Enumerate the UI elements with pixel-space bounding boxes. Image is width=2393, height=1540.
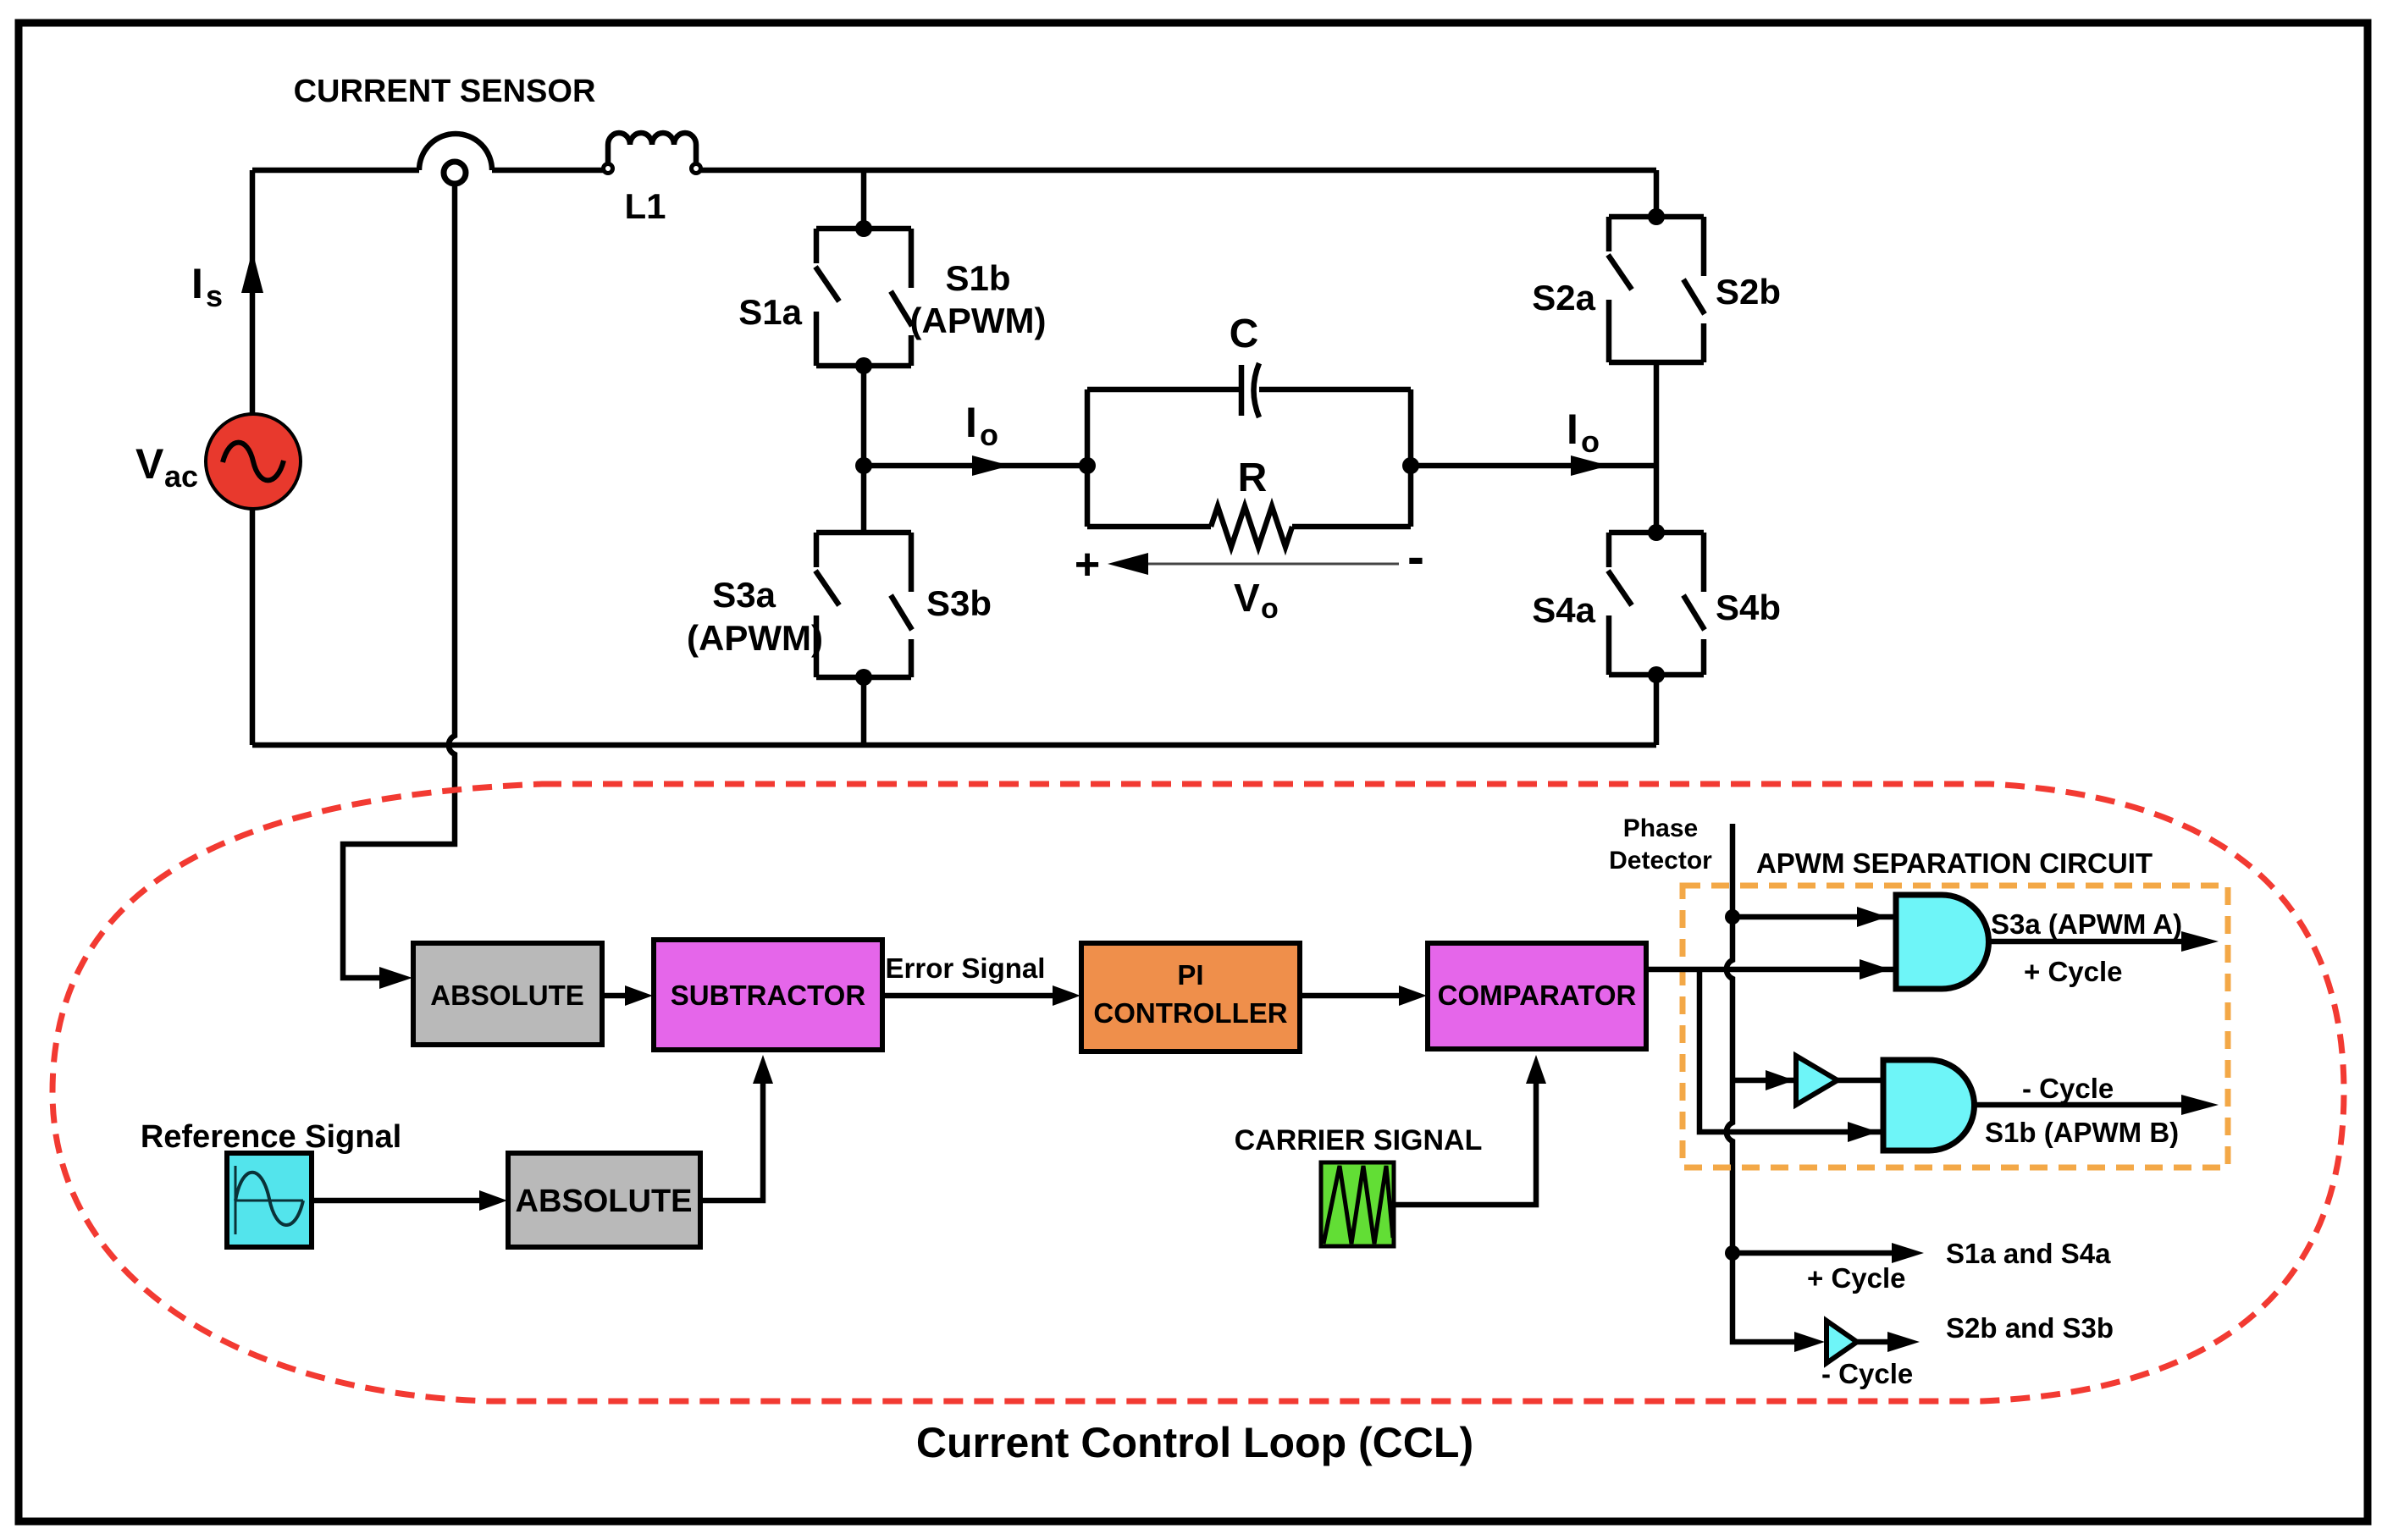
svg-text:-: - xyxy=(1407,528,1424,585)
svg-text:+ Cycle: + Cycle xyxy=(1807,1262,1906,1294)
svg-text:R: R xyxy=(1238,455,1268,500)
wire S4 bottom stub xyxy=(1654,675,1660,745)
svg-text:S2b: S2b xyxy=(1716,272,1781,312)
label Io left xyxy=(965,399,998,452)
svg-text:o: o xyxy=(1581,424,1600,459)
block COMPARATOR xyxy=(1428,943,1646,1049)
APWM separation dashed box xyxy=(1683,886,2228,1167)
svg-text:S4b: S4b xyxy=(1716,588,1781,627)
svg-text:ABSOLUTE: ABSOLUTE xyxy=(430,980,584,1011)
buffer U2 xyxy=(1827,1321,1857,1363)
arrow ABSOLUTE1 to SUBTRACTOR xyxy=(602,985,653,1006)
svg-text:Current Control Loop (CCL): Current Control Loop (CCL) xyxy=(916,1419,1473,1466)
node S1 top xyxy=(855,220,872,237)
svg-text:S1a: S1a xyxy=(738,292,802,332)
svg-text:COMPARATOR: COMPARATOR xyxy=(1438,980,1637,1011)
node S4 bottom xyxy=(1648,666,1665,683)
svg-text:CONTROLLER: CONTROLLER xyxy=(1093,997,1287,1029)
wire Io right xyxy=(1411,463,1656,469)
label Is xyxy=(191,260,223,313)
wire top rail xyxy=(252,168,1656,174)
node S2 top xyxy=(1648,208,1665,225)
svg-text:C: C xyxy=(1230,312,1259,356)
switch pair S1 box xyxy=(815,229,912,366)
svg-text:Phase: Phase xyxy=(1623,814,1698,842)
label Vo xyxy=(1234,576,1279,625)
arrow into ABSOLUTE1 xyxy=(379,967,412,989)
AND gate G2 xyxy=(1883,1060,1975,1151)
svg-text:S3a: S3a xyxy=(712,575,776,615)
svg-text:S2b and S3b: S2b and S3b xyxy=(1946,1312,2114,1344)
svg-text:Reference Signal: Reference Signal xyxy=(141,1119,401,1155)
wire PI to COMPARATOR xyxy=(1300,985,1427,1006)
svg-text:L1: L1 xyxy=(624,186,666,226)
arrow into buffer2 xyxy=(1794,1332,1825,1352)
source Vac xyxy=(206,414,301,509)
svg-text:- Cycle: - Cycle xyxy=(2022,1073,2114,1104)
inductor L1 xyxy=(608,133,696,166)
buffer U1 xyxy=(1796,1056,1838,1105)
Vo arrow line xyxy=(1108,553,1399,575)
svg-text:s: s xyxy=(206,279,223,313)
svg-text:I: I xyxy=(1567,406,1578,453)
node S3 bottom xyxy=(855,669,872,686)
wire AND1 output xyxy=(1988,931,2219,952)
svg-text:CURRENT SENSOR: CURRENT SENSOR xyxy=(294,74,596,109)
svg-text:ac: ac xyxy=(164,459,198,494)
svg-text:S3a (APWM A): S3a (APWM A) xyxy=(1991,908,2182,940)
current sensor arc xyxy=(419,134,492,170)
wire sensor sense line with hop over bottom rail xyxy=(343,185,455,978)
wire comparator output to AND1 xyxy=(1646,959,1896,980)
arrow Is xyxy=(241,251,263,293)
RC network loop xyxy=(1087,389,1411,527)
block SUBTRACTOR xyxy=(654,940,882,1050)
wire left rail xyxy=(250,170,256,745)
svg-text:o: o xyxy=(1261,593,1279,625)
svg-text:S4a: S4a xyxy=(1532,590,1595,630)
wire AND2 output xyxy=(1974,1095,2219,1115)
svg-text:+ Cycle: + Cycle xyxy=(2024,956,2123,987)
node phase pluscycle branch xyxy=(1725,1245,1740,1261)
wire reference to ABSOLUTE2 xyxy=(312,1190,507,1211)
arrow Io left xyxy=(972,455,1010,476)
svg-text:I: I xyxy=(965,399,977,446)
svg-text:S2a: S2a xyxy=(1532,278,1595,317)
svg-text:S1a and S4a: S1a and S4a xyxy=(1946,1238,2111,1269)
arrow Io right xyxy=(1571,455,1609,476)
wire buffer2 output xyxy=(1857,1332,1920,1352)
wire S2 to S4 xyxy=(1654,362,1660,533)
block ABSOLUTE 1 xyxy=(413,943,602,1045)
wire buffer1 to AND2 xyxy=(1836,1078,1883,1084)
resistor R xyxy=(1211,506,1292,547)
AND gate G1 xyxy=(1896,895,1989,989)
svg-text:Error Signal: Error Signal xyxy=(886,952,1046,984)
svg-text:I: I xyxy=(191,260,203,307)
wire ABSOLUTE2 to SUBTRACTOR bottom xyxy=(700,1055,773,1201)
svg-text:S1b: S1b xyxy=(945,258,1010,298)
reference signal source box xyxy=(227,1153,312,1247)
CCL dashed boundary xyxy=(53,784,2344,1401)
block ABSOLUTE 2 xyxy=(508,1153,700,1247)
switch pair S3 box xyxy=(815,533,912,677)
svg-text:V: V xyxy=(1234,576,1260,620)
node RC left xyxy=(1079,457,1096,474)
switch pair S2 box xyxy=(1608,217,1705,362)
wire S2 top stub xyxy=(1654,170,1660,217)
label Phase Detector xyxy=(1609,814,1712,875)
svg-text:+: + xyxy=(1075,540,1100,589)
wire S1 top stub xyxy=(861,170,867,229)
node Io left xyxy=(855,457,872,474)
svg-text:ABSOLUTE: ABSOLUTE xyxy=(516,1184,693,1219)
svg-text:(APWM): (APWM) xyxy=(687,618,823,658)
svg-text:S3b: S3b xyxy=(926,583,992,623)
wire SUBTRACTOR to PI xyxy=(882,985,1080,1006)
svg-text:o: o xyxy=(980,417,998,452)
svg-text:(APWM): (APWM) xyxy=(910,301,1047,340)
wire branch down to AND2 lower input xyxy=(1699,969,1883,1142)
wire carrier to COMPARATOR bottom xyxy=(1394,1055,1546,1205)
node S1 bottom xyxy=(855,357,872,374)
wire phase to buffer1 xyxy=(1733,1070,1796,1090)
carrier signal source box xyxy=(1321,1162,1394,1246)
wire plus cycle branch xyxy=(1733,1243,1924,1263)
svg-text:APWM SEPARATION CIRCUIT: APWM SEPARATION CIRCUIT xyxy=(1756,847,2153,879)
phase detector bus with hops xyxy=(1727,824,1799,1342)
label Io right xyxy=(1567,406,1600,459)
svg-text:- Cycle: - Cycle xyxy=(1821,1358,1913,1389)
node S4 top xyxy=(1648,524,1665,541)
wire phase to AND1 upper input xyxy=(1733,907,1896,927)
wire bottom rail xyxy=(252,742,1656,748)
block PI CONTROLLER xyxy=(1081,943,1300,1052)
wire Io left xyxy=(864,463,1087,469)
svg-text:V: V xyxy=(135,440,164,488)
current sensor ring xyxy=(444,162,466,184)
label Vac xyxy=(135,440,198,494)
switch pair S4 box xyxy=(1608,533,1705,675)
node RC right xyxy=(1402,457,1419,474)
node phase top branch xyxy=(1725,909,1740,925)
capacitor C plates xyxy=(1241,363,1259,417)
svg-text:CARRIER SIGNAL: CARRIER SIGNAL xyxy=(1235,1124,1483,1156)
svg-text:PI: PI xyxy=(1177,959,1203,991)
svg-text:S1b (APWM B): S1b (APWM B) xyxy=(1985,1117,2179,1148)
wire S1 to Io node xyxy=(861,366,867,533)
svg-text:Detector: Detector xyxy=(1609,847,1712,875)
wire S3 bottom stub xyxy=(861,677,867,745)
svg-text:SUBTRACTOR: SUBTRACTOR xyxy=(671,980,866,1011)
